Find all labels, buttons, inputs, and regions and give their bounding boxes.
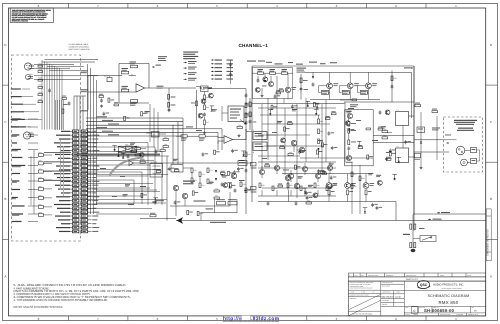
label cluster right [419, 227, 425, 230]
wire +HT label [247, 61, 256, 62]
svg-text:RMX 850: RMX 850 [438, 300, 458, 305]
diode D15 [420, 142, 422, 144]
wire top horizontal runs [42, 61, 95, 63]
labels top right [158, 56, 167, 57]
box mid part2 2 [298, 151, 301, 153]
diode D20 [215, 170, 217, 172]
capacitor C12 [245, 169, 248, 171]
bottom mid part 7 [173, 159, 178, 160]
pre-box part 5 [220, 172, 225, 174]
node GND CH1 [12, 142, 17, 143]
wire center vertical [245, 89, 247, 140]
bottom mid part 10 [192, 191, 194, 195]
box tl part 1 [255, 87, 260, 92]
switch S105 [39, 187, 44, 190]
transistor Q9 [347, 113, 352, 118]
switch S101 [39, 154, 44, 157]
lower-left part 3 [139, 152, 144, 157]
watermark stamp box [241, 316, 251, 321]
connector J101 XLR input [24, 63, 31, 70]
resistor R101 [38, 65, 43, 67]
note: proprietary information box [10, 8, 53, 22]
resistor R76 [214, 190, 219, 192]
box mid part 2 [271, 105, 273, 109]
resistor R71 [191, 178, 193, 183]
capacitor C20 [391, 85, 394, 87]
node FLOW BYPASS A (2) [12, 205, 25, 206]
pre-box part 4 [233, 171, 236, 173]
node MODE CH2 [12, 197, 18, 198]
box R84 [238, 161, 247, 166]
wire lower rail drop [395, 202, 397, 221]
connector stub J7 [251, 163, 257, 166]
between part 4 [124, 116, 126, 120]
transistor Q1 [269, 82, 274, 87]
wire mesh rail [258, 161, 336, 163]
switch S102 [39, 162, 44, 165]
wire input rows to amp [34, 64, 74, 66]
wire row1b [129, 75, 136, 77]
switch S108 [39, 213, 44, 216]
diode D4 [264, 80, 266, 82]
capacitor C40 [221, 183, 224, 185]
resistor R90 [150, 215, 156, 217]
resistor R52 [287, 183, 289, 188]
diode D21 [215, 178, 217, 180]
resistor R17 [163, 139, 168, 141]
capacitor C31 [295, 202, 298, 204]
transistor Q7 [291, 140, 296, 145]
wire cell bus bottom [310, 99, 380, 101]
box mid part 12 [313, 102, 315, 106]
connector J19A pin 27 [73, 230, 79, 233]
node CLIP CH2 (+B) [12, 221, 22, 222]
capacitor C201 [48, 89, 51, 91]
pre-box part 1 [228, 171, 230, 175]
resistor R70 [191, 168, 193, 173]
box mid part2 5 [284, 127, 286, 131]
box lower part2 7 [330, 176, 333, 178]
box lower part 4 [329, 163, 334, 164]
lower mid part 3 [141, 193, 143, 197]
wire box mid horizontals [258, 107, 336, 109]
resistor R74 [207, 168, 209, 173]
resistor R204 [38, 101, 43, 103]
wire output rail top [305, 71, 412, 73]
wire to sheet 2 [413, 213, 486, 215]
resistor R56 [306, 202, 311, 204]
wire tl mesh [257, 76, 259, 80]
box right part 4 [358, 147, 363, 149]
right lower part 7 [363, 207, 368, 209]
mid chain part 3 [201, 99, 206, 104]
wire mesh verticals [261, 190, 263, 196]
capacitor C5 / C7 column [227, 60, 234, 61]
connector J19A pin 6 [73, 149, 79, 152]
node arrow output [177, 217, 184, 224]
wire right rail [344, 101, 414, 103]
resistor R59 [359, 176, 361, 181]
capacitor C22 [347, 147, 350, 149]
resistor R58 [351, 184, 353, 189]
node IN CH1 (+) [12, 126, 19, 127]
right lower part 2 [392, 173, 397, 175]
svg-text:SW5: SW5 [39, 186, 42, 188]
connector J19A pin 14 [73, 180, 79, 183]
svg-text:B: B [4, 197, 6, 201]
node CLOSE IN AS CH2 [12, 213, 23, 214]
wire ladder to cluster [87, 164, 151, 166]
resistor R44 [318, 139, 320, 144]
resistor R23 [282, 72, 288, 74]
label arrows right [244, 190, 247, 192]
parts above ladder [62, 98, 66, 100]
switch S1 bal/unbal [118, 146, 137, 152]
wire ribbon bundle [41, 60, 43, 130]
wire row1 [88, 75, 122, 77]
labels right of opamp [157, 86, 164, 87]
wire lower rows from ladder [87, 142, 149, 144]
resistor R51 [272, 186, 274, 191]
box mid part 3 [327, 132, 330, 134]
svg-text:PARTS LIST: PARTS LIST [406, 278, 418, 281]
transistor Q123 [327, 83, 333, 89]
transistor Q8 [299, 147, 304, 152]
connector stub J9 [251, 187, 257, 190]
resistor R73 [199, 183, 201, 188]
diode D5 [312, 76, 314, 78]
box lower part r [415, 154, 421, 158]
QSC logo [417, 281, 429, 289]
wire mesh out [258, 201, 289, 203]
label stub A [437, 212, 440, 214]
transistor Q127 [366, 83, 372, 89]
resistor R19 [131, 151, 136, 153]
resistor R16 [135, 154, 140, 156]
svg-text:1. THIS DRAWING USED IN CONJUN: 1. THIS DRAWING USED IN CONJUNCTION WITH… [14, 298, 108, 302]
resistor R22 [270, 72, 276, 74]
connector J19A pin 1 [73, 130, 79, 133]
bottom mid part 1 [229, 184, 231, 188]
box lower part 1 [303, 187, 308, 189]
relay K1 [396, 112, 409, 126]
wire ladder right bus [87, 64, 89, 214]
resistor R42 [318, 119, 320, 124]
relay K3 [171, 165, 183, 173]
resistor R33 [245, 188, 247, 193]
box mid part 10 [315, 102, 320, 104]
box right part2 3 [397, 156, 402, 158]
resistor R32 [245, 152, 247, 157]
terminal BLK [471, 159, 477, 164]
svg-text:1-22-98: 1-22-98 [395, 295, 401, 298]
box lower part2 5 [330, 184, 333, 186]
node CLIP CH1 (−) [12, 149, 21, 150]
box lower part 5 [305, 191, 308, 193]
resistor R119 bottom [131, 100, 138, 103]
bottom mid part 11 [223, 183, 228, 188]
wire bus drop 1 [182, 118, 184, 164]
transistor Q10 [346, 155, 351, 160]
wire bus drop 2 [177, 122, 179, 164]
box right part 2 [346, 111, 351, 112]
resistor R46 [348, 122, 350, 127]
capacitor C17 [312, 83, 315, 85]
box mid part 6 [331, 147, 334, 149]
wire U4A inputs [218, 137, 224, 139]
wire rail extend [252, 103, 345, 105]
wire ladder risers [73, 96, 75, 130]
wire right chain [168, 88, 170, 112]
resistor R66 [410, 243, 412, 248]
bus ext labels [186, 126, 193, 127]
wire output rail bottom [176, 220, 486, 222]
box mid part2 7 [281, 138, 286, 143]
op-amp U4A [224, 136, 233, 144]
connector J19A pin 12 [73, 172, 79, 175]
capacitor C8 [245, 121, 248, 123]
wire to speaker plate [414, 139, 446, 141]
gray swoosh arrow [110, 158, 144, 176]
svg-text:B: B [490, 197, 492, 201]
resistor R28b [195, 101, 197, 106]
bottom mid part 9 [231, 149, 234, 151]
resistor R121 [168, 103, 170, 108]
label TR29 [350, 104, 358, 105]
title block [348, 273, 485, 277]
connector J19A pin 3 [73, 138, 79, 141]
svg-text:REV: REV [472, 307, 475, 309]
label gnd [81, 110, 89, 111]
title block diagonals [349, 295, 380, 310]
resistor R24 [276, 92, 281, 94]
box lower part2 1 [306, 197, 309, 199]
bottom mid part 5 [202, 153, 205, 155]
svg-text:CONTRACT NO.: CONTRACT NO. [382, 282, 394, 284]
wire center vertical low [245, 132, 247, 215]
box mid part2 4 [325, 118, 330, 120]
note text above labels [183, 52, 198, 53]
node BRIDGE MODE [12, 189, 20, 190]
transistor Q31 [182, 193, 187, 198]
bottom mid part 2 [227, 182, 232, 184]
svg-text:SCHEMATIC DIAGRAM: SCHEMATIC DIAGRAM [428, 294, 470, 298]
transistor lower cell [326, 183, 332, 189]
connector J19A pin 20 [73, 203, 79, 206]
resistor R120 [168, 95, 170, 100]
box lower part 8 [265, 165, 270, 167]
capacitor C13 [155, 150, 158, 152]
svg-text:AUDIO PRODUCTS, INC.: AUDIO PRODUCTS, INC. [433, 284, 464, 287]
wire box right edge [413, 66, 415, 231]
connector J6 [253, 132, 267, 140]
resistor R117 [122, 89, 129, 92]
op-amp U2A [129, 161, 134, 166]
gray trace bus [77, 154, 160, 156]
transistor lower cell [345, 183, 351, 189]
capacitor C5 [229, 63, 232, 65]
connector J19A pin 26 [73, 226, 79, 229]
diode D11 [317, 148, 319, 150]
svg-text:CARBON FILMS AND FINISH: CARBON FILMS AND FINISH [350, 295, 369, 297]
right lower part 1 [371, 204, 374, 206]
svg-text:MIKE PHILPOT: MIKE PHILPOT [382, 295, 395, 298]
transistor Q13 [288, 173, 293, 178]
left-of-box chain [249, 98, 251, 130]
limiter arrow [240, 120, 247, 125]
switch S103 [39, 170, 44, 173]
connector J19A pin 7 [73, 153, 79, 156]
resistor R125 [342, 90, 349, 94]
box mid part 11 [268, 109, 273, 111]
feedback loop wire [119, 63, 149, 65]
connector J19A pin 17 [73, 192, 79, 195]
connector J19A pin 8 [73, 157, 79, 160]
between part 2 [103, 112, 106, 114]
svg-text:CHANNEL−1: CHANNEL−1 [239, 43, 269, 48]
resistor R64 [410, 224, 412, 229]
box lower part 2 [322, 173, 327, 175]
connector J19A pin 4 [73, 142, 79, 145]
transistor Q14 [302, 166, 307, 171]
bottom mid part 13 [209, 182, 214, 183]
wire bus drop 3 [172, 125, 174, 164]
resistor R45 [288, 154, 293, 156]
transistor Q125 [347, 83, 353, 89]
box tl part 3 [279, 90, 284, 92]
label column signal outputs [184, 62, 187, 64]
label in- [81, 89, 89, 90]
resistor R202 [38, 86, 43, 88]
connector J19A pin 25 [73, 222, 79, 225]
svg-text:NOTES: UNLESS OTHERWISE SPECIF: NOTES: UNLESS OTHERWISE SPECIFIED [14, 305, 64, 309]
resistor R116 [122, 71, 129, 74]
resistor R47 [348, 129, 350, 134]
label in+ [81, 70, 89, 71]
bottom mid part 8 [168, 167, 171, 169]
wire feed down [175, 206, 177, 216]
svg-text:SW3: SW3 [39, 168, 42, 170]
box mid part 1 [292, 109, 297, 110]
bottom mid part 12 [214, 150, 216, 154]
resistor R27 chain [204, 120, 206, 125]
label audio ch1 com [210, 222, 226, 223]
resistor R43 [318, 129, 320, 134]
node INPUTS CH2 [12, 180, 19, 181]
speaker output plate boundary (dashed) [444, 117, 483, 172]
box mid part 7 [306, 100, 311, 102]
connector J103 XLR input [23, 132, 30, 139]
box mid part2 3 [280, 147, 285, 149]
resistor R38 [391, 76, 393, 81]
right lower part 4 [375, 206, 378, 208]
wire U5A [146, 132, 152, 134]
wire plate entry [446, 139, 457, 141]
svg-text:RELEASE DATE: RELEASE DATE [440, 314, 450, 316]
wire pre-driver vertical right [411, 72, 413, 118]
wire bus extend [183, 128, 222, 130]
resistor R49 [432, 111, 438, 113]
connector J19A pin 2 [73, 134, 79, 137]
wire lower rail corner [288, 190, 290, 202]
svg-text:SW6: SW6 [39, 195, 42, 197]
box right part2 6 [345, 121, 350, 126]
thermistor NTC [417, 127, 425, 133]
box lower part 7 [327, 187, 332, 188]
node summing [245, 129, 246, 130]
capacitor C30 [267, 202, 270, 204]
resistor R57 [351, 172, 353, 177]
label R29 [432, 128, 440, 129]
right lower part 5 [376, 175, 381, 176]
box mid part2 8 [331, 113, 336, 115]
resistor R123 [322, 90, 329, 94]
box right part 7 [378, 128, 383, 130]
lowermid extra [100, 168, 106, 169]
wire limiter column [348, 119, 350, 122]
connector J19A pin 18 [73, 195, 79, 198]
wire mid vertical2 [196, 90, 198, 129]
connector J19A pin 15 [73, 184, 79, 187]
connector J19A pin 16 [73, 188, 79, 191]
svg-text:SIZE: SIZE [405, 307, 408, 309]
resistor R77 [214, 197, 219, 199]
mid chain part 5 [212, 109, 217, 110]
pre-box part 2 [237, 167, 240, 169]
label R60 [403, 234, 410, 235]
wire bundle to ladder [55, 100, 57, 130]
wire bus rows [86, 117, 183, 119]
labels mid cluster [183, 181, 195, 182]
wire switch verticals [33, 150, 35, 214]
box lower part2 4 [298, 176, 303, 177]
resistor R34 [181, 135, 187, 137]
box mid part 9 [316, 150, 318, 154]
transistor lower cell [363, 183, 369, 189]
box mid part 8 [277, 121, 282, 122]
transistor Q16 [327, 165, 332, 170]
lower output cells [282, 173, 370, 175]
right lower part 3 [368, 173, 373, 174]
zobel cluster [217, 202, 226, 205]
bottom mid part 4 [241, 150, 246, 152]
transistor Q15 [315, 173, 320, 178]
box mid part 5 [288, 123, 293, 125]
wire op-amp output [145, 87, 196, 89]
resistor R39 [382, 131, 388, 133]
lower-left part 4 [121, 152, 126, 154]
relay contact box [420, 236, 436, 242]
drawing number row [403, 306, 405, 316]
op-amp U3B [201, 86, 209, 92]
resistor R26s [300, 78, 302, 83]
node CLIP CH1 (+) [12, 118, 21, 119]
box tl part 4 [263, 77, 268, 82]
resistor R53 [300, 186, 302, 191]
wire U3B in [196, 86, 201, 88]
ground speaker area [420, 166, 422, 167]
connector J19A pin 13 [73, 176, 79, 179]
mesh extra [262, 157, 267, 160]
svg-text:MATERIAL: MATERIAL [350, 298, 357, 300]
small parts below [99, 96, 104, 98]
resistor R65 [414, 224, 416, 229]
wire J6 [267, 134, 276, 136]
connector J12 jack [461, 159, 468, 166]
svg-text:ISSUED: ISSUED [382, 304, 387, 306]
mid chain part 1 [208, 93, 213, 98]
left labels upper rows [11, 88, 21, 89]
